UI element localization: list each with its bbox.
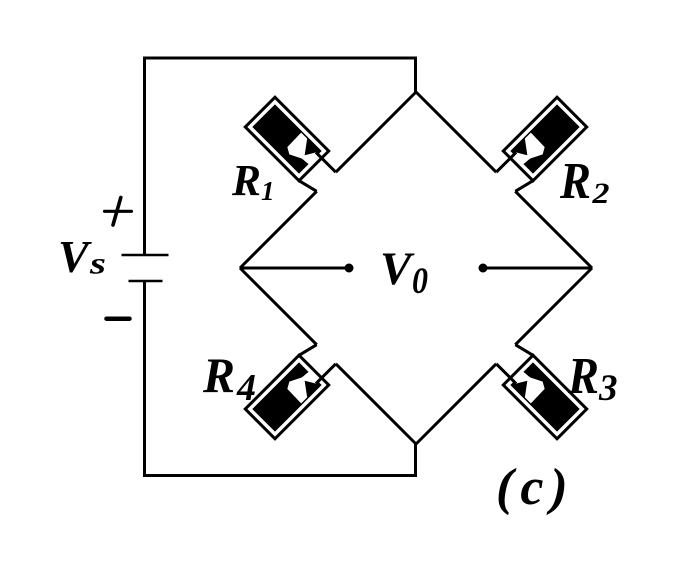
svg-text:3: 3 — [598, 368, 618, 409]
svg-text:0: 0 — [412, 261, 428, 302]
svg-text:2: 2 — [591, 177, 609, 210]
svg-text:R: R — [202, 347, 235, 403]
svg-text:s: s — [89, 246, 106, 281]
svg-text:R: R — [231, 156, 261, 205]
svg-text:V: V — [380, 243, 415, 295]
svg-text:V: V — [58, 231, 92, 282]
svg-text:4: 4 — [236, 367, 256, 409]
svg-text:R: R — [567, 348, 599, 405]
svg-text:(c): (c) — [496, 459, 575, 516]
svg-text:R: R — [559, 153, 591, 210]
svg-text:1: 1 — [261, 176, 275, 206]
